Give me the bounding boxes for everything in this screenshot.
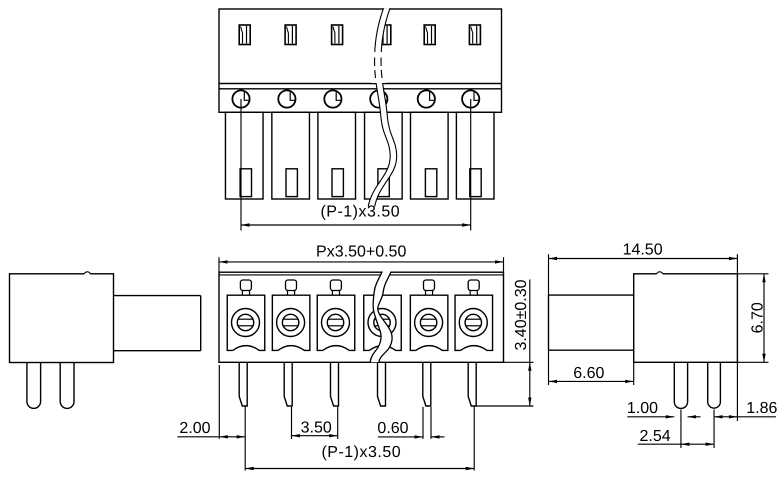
svg-text:3.40±0.30: 3.40±0.30 [513, 279, 530, 350]
svg-text:6.70: 6.70 [749, 302, 766, 333]
svg-text:1.86: 1.86 [746, 400, 777, 417]
svg-text:1.00: 1.00 [627, 400, 658, 417]
svg-text:Px3.50+0.50: Px3.50+0.50 [316, 243, 406, 260]
svg-text:2.00: 2.00 [179, 420, 210, 437]
svg-text:(P-1)x3.50: (P-1)x3.50 [320, 204, 400, 221]
svg-text:3.50: 3.50 [301, 420, 332, 437]
svg-text:(P-1)x3.50: (P-1)x3.50 [321, 444, 401, 461]
svg-text:14.50: 14.50 [623, 242, 663, 259]
svg-text:0.60: 0.60 [377, 420, 408, 437]
svg-text:6.60: 6.60 [573, 365, 604, 382]
svg-text:2.54: 2.54 [640, 428, 671, 445]
